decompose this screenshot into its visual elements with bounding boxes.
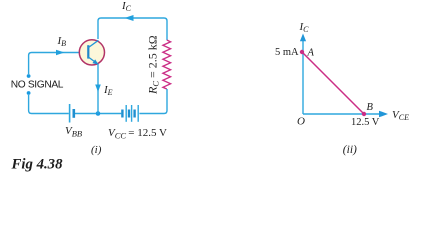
wire input upper terminal to base (29, 53, 80, 75)
battery V_BB (70, 104, 74, 123)
svg-text:A: A (307, 48, 315, 59)
load line A-B (302, 52, 364, 114)
svg-text:5 mA: 5 mA (275, 47, 299, 58)
arrow I_C on top wire (125, 15, 134, 21)
svg-text:IC: IC (121, 0, 132, 13)
svg-text:IC: IC (299, 21, 310, 34)
transistor Q1 (79, 40, 104, 65)
node input upper terminal (27, 74, 31, 78)
wire VCC battery to emitter junction (98, 113, 121, 115)
axis I_C vertical (302, 39, 304, 114)
svg-text:VCC = 12.5 V: VCC = 12.5 V (108, 127, 167, 141)
svg-text:RC = 2.5 kΩ: RC = 2.5 kΩ (146, 35, 161, 95)
battery V_CC (122, 105, 138, 122)
svg-text:VCE: VCE (392, 109, 409, 122)
svg-text:B: B (367, 102, 374, 113)
node emitter junction (96, 111, 101, 116)
wire emitter down (97, 64, 99, 114)
svg-text:NO SIGNAL: NO SIGNAL (11, 80, 64, 91)
wire junction to VBB battery (75, 113, 96, 115)
svg-text:Fig 4.38: Fig 4.38 (11, 157, 64, 173)
svg-text:VBB: VBB (65, 125, 82, 139)
svg-text:O: O (297, 116, 305, 128)
arrow I_B (56, 50, 65, 56)
arrowhead axis I_C (300, 34, 306, 42)
wire resistor bottom to VCC battery (139, 89, 167, 114)
svg-text:IB: IB (57, 35, 67, 48)
svg-text:(ii): (ii) (343, 144, 357, 156)
wire collector top to resistor top (98, 18, 167, 40)
axis V_CE horizontal (303, 113, 382, 115)
resistor R_C (163, 40, 171, 89)
svg-text:12.5 V: 12.5 V (351, 117, 380, 128)
node input lower terminal (27, 91, 31, 95)
arrowhead axis V_CE (379, 111, 388, 118)
svg-text:IE: IE (103, 84, 113, 97)
wire VBB battery to input lower terminal (29, 95, 69, 114)
arrow I_E (95, 85, 101, 93)
node B (362, 112, 366, 116)
node A (300, 50, 304, 54)
svg-text:(i): (i) (91, 144, 102, 156)
